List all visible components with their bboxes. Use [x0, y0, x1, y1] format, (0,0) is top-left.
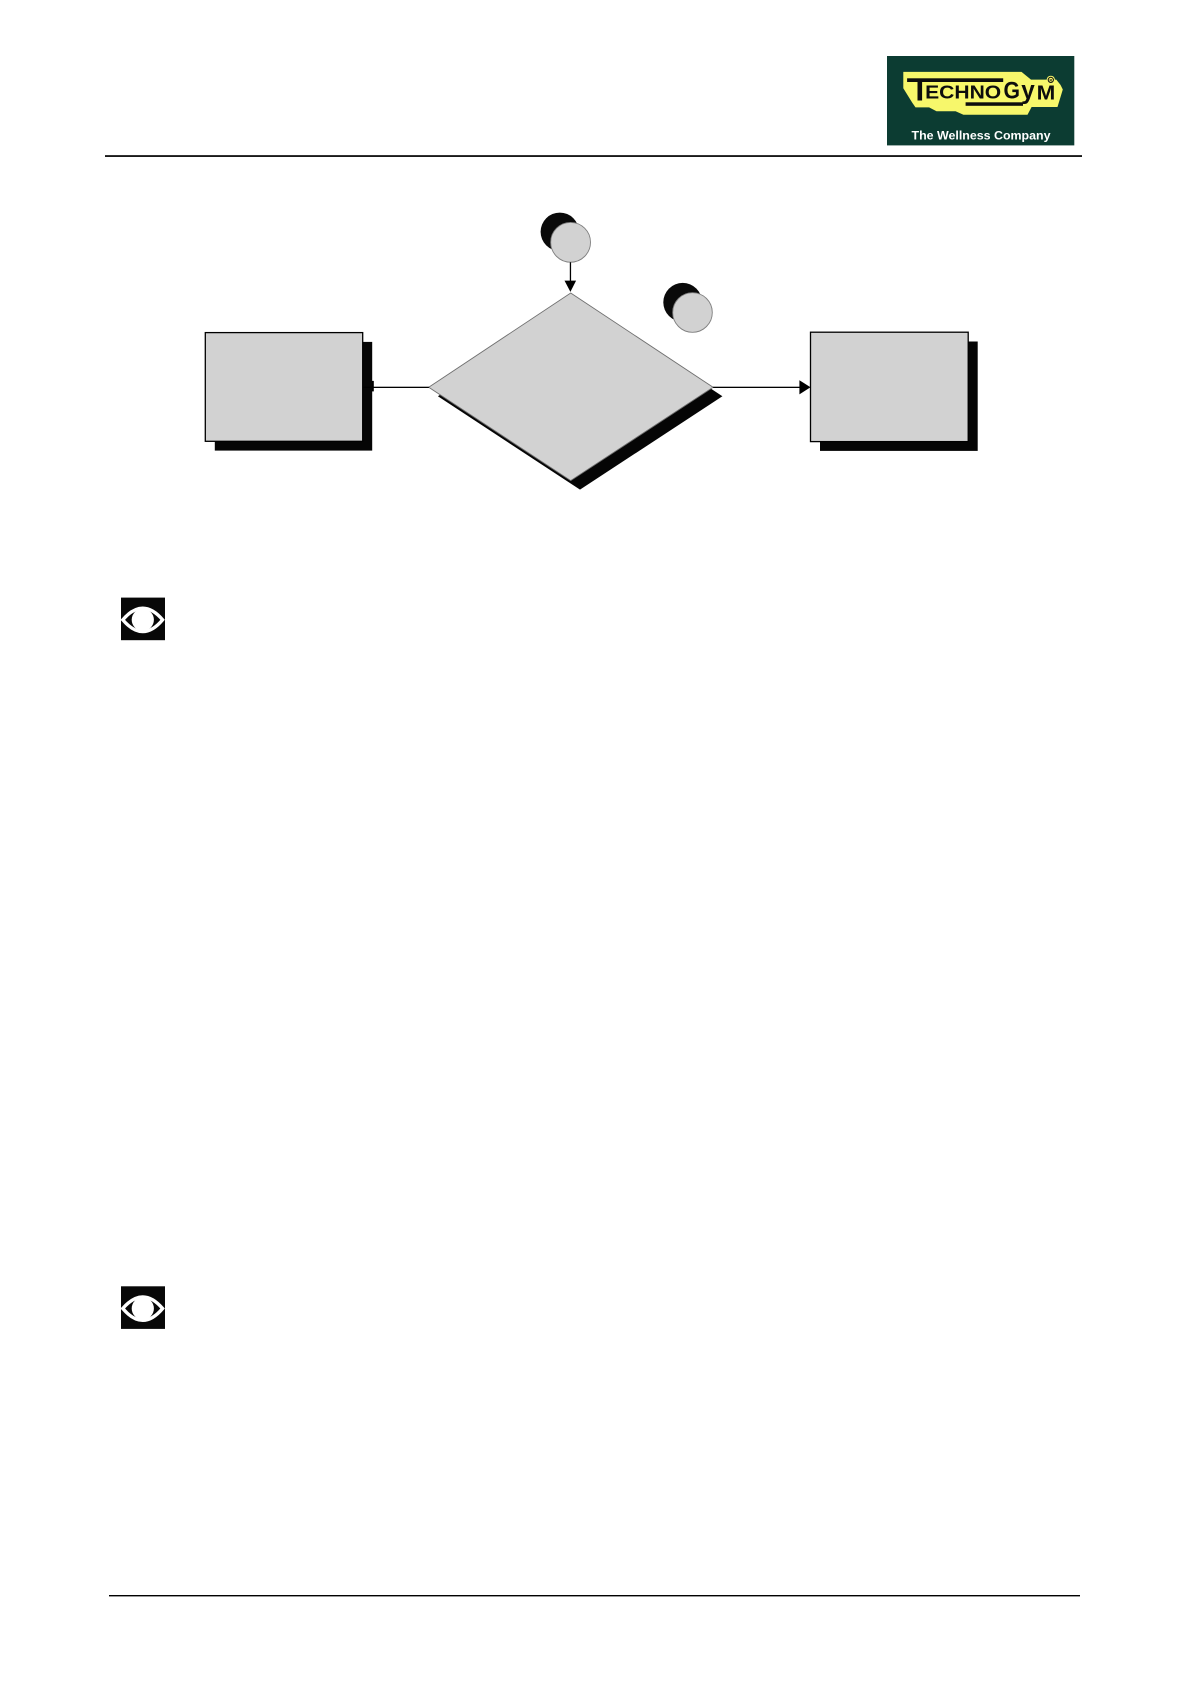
- connector circle shadow: [663, 283, 702, 322]
- left process box: [205, 333, 362, 442]
- arrow decision to right box: [713, 380, 810, 394]
- decision diamond: [429, 293, 713, 481]
- svg-text:The Wellness Company: The Wellness Company: [912, 129, 1051, 143]
- Technogym logo: [887, 56, 1074, 145]
- arrow start to decision: [565, 262, 577, 292]
- left process box shadow: [215, 342, 372, 451]
- note eye icon 2: [121, 1286, 165, 1329]
- svg-text:R: R: [1049, 78, 1052, 82]
- right process box: [811, 332, 969, 441]
- start circle: [551, 222, 591, 262]
- start circle shadow: [541, 213, 579, 251]
- svg-text:y: y: [1021, 75, 1035, 105]
- footer rule: [109, 1595, 1080, 1596]
- note eye icon 1: [121, 598, 165, 641]
- wire left box to decision: [363, 381, 429, 392]
- svg-text:G: G: [1004, 78, 1021, 105]
- svg-text:ECHNO: ECHNO: [925, 83, 1001, 103]
- header rule: [105, 155, 1082, 157]
- connector circle: [673, 293, 713, 333]
- decision diamond shadow: [438, 302, 723, 490]
- svg-text:M: M: [1037, 82, 1056, 104]
- right process box shadow: [820, 342, 978, 451]
